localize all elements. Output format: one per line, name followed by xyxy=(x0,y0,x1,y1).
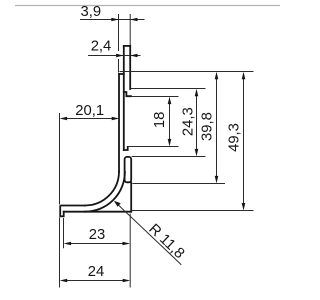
leader R11,8 xyxy=(115,202,181,265)
ext line C above blade xyxy=(129,14,131,45)
top hook xyxy=(124,92,131,96)
2,4 arrows xyxy=(116,54,124,58)
dim line 39,8 xyxy=(216,78,218,177)
dim line 23 xyxy=(70,243,124,245)
svg-text:39,8: 39,8 xyxy=(200,112,216,141)
ext line A (3,9 left) xyxy=(118,14,120,73)
page border top xyxy=(15,5,280,7)
right side extension lines xyxy=(120,71,254,73)
right end face xyxy=(130,182,132,211)
svg-text:3,9: 3,9 xyxy=(81,4,102,20)
dim line 2,4 xyxy=(88,55,141,57)
svg-text:18: 18 xyxy=(152,112,168,128)
18 arrows xyxy=(168,97,172,105)
inner fillet curve xyxy=(85,172,125,212)
svg-text:49,3: 49,3 xyxy=(227,123,243,152)
ext 23 left xyxy=(63,218,65,248)
svg-text:2,4: 2,4 xyxy=(91,38,112,54)
dim line 18 xyxy=(169,103,171,140)
3,9 arrows xyxy=(111,18,119,22)
lower jog xyxy=(124,147,128,150)
blade top cap xyxy=(124,45,130,47)
24 arrows xyxy=(60,279,67,283)
dimension texts xyxy=(75,4,242,280)
ext 24 left xyxy=(59,218,61,288)
20,1 arrows xyxy=(60,117,68,121)
step top face xyxy=(119,73,124,75)
blade/wall inner face B xyxy=(123,46,125,150)
svg-text:20,1: 20,1 xyxy=(75,103,104,119)
svg-text:23: 23 xyxy=(89,227,105,243)
dim line 3,9 xyxy=(80,19,145,21)
blade right face C xyxy=(129,46,131,89)
39,8 arrows xyxy=(215,72,219,80)
24,3 arrows xyxy=(195,89,199,97)
49,3 arrows xyxy=(242,72,246,80)
outer fillet curve R11.8 xyxy=(85,172,119,206)
23 arrows xyxy=(64,242,72,246)
dim line 49,3 xyxy=(243,78,245,204)
dim line 20,1 xyxy=(66,118,113,120)
leader arrow xyxy=(114,201,121,207)
svg-text:24,3: 24,3 xyxy=(180,107,196,136)
leg bottom face xyxy=(64,211,132,213)
leg top face + lip xyxy=(60,206,85,217)
svg-text:R 11,8: R 11,8 xyxy=(145,221,187,262)
ext 20,1 left xyxy=(59,113,61,205)
dim line 24,3 xyxy=(196,95,198,150)
ext 23/24 right xyxy=(129,214,131,288)
outer left face T1 xyxy=(118,74,120,172)
arrowheads xyxy=(60,18,246,283)
screw channel slot xyxy=(125,157,132,182)
dim line 24 xyxy=(67,280,124,282)
svg-text:24: 24 xyxy=(88,264,104,280)
